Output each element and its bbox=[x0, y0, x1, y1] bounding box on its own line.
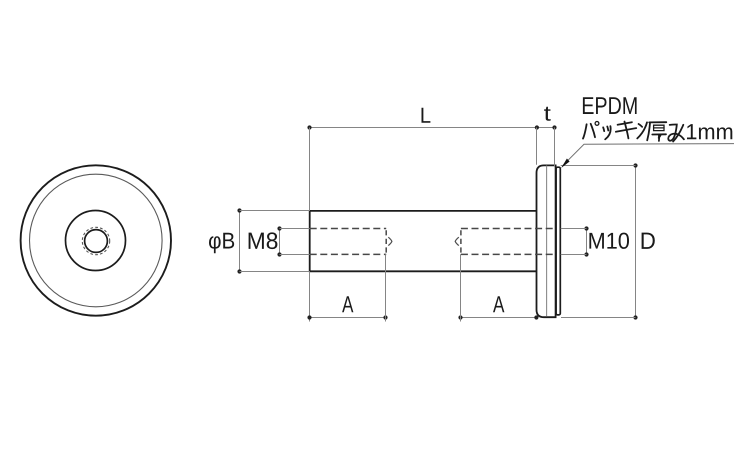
D bottom extension line bbox=[561, 317, 636, 319]
extension line at flange left (for L/t) bbox=[536, 128, 538, 165]
extension line at packing right (for t) bbox=[554, 128, 556, 167]
leader line for EPDM packing note bbox=[562, 144, 734, 167]
label M8 bbox=[249, 232, 278, 249]
label D bbox=[642, 233, 655, 249]
kanji ATSU (thickness) bbox=[649, 121, 666, 123]
label phiB bbox=[209, 233, 234, 253]
dimension A right: line with dots bbox=[461, 317, 537, 319]
label packing-thickness (Japanese) drawn as vector strokes bbox=[583, 122, 684, 142]
dimension M10: vertical line with dots bbox=[586, 229, 588, 255]
front view: outer circle (flange diameter D) bbox=[21, 165, 171, 315]
side view: EPDM packing strip bbox=[556, 167, 560, 315]
M10 tapped hole dashed outline (right end) bbox=[461, 229, 555, 255]
M10 extension lines bbox=[561, 228, 587, 230]
extension line at M8 hole end bbox=[385, 254, 387, 321]
M10 hole drill point chevron bbox=[455, 237, 459, 245]
label A right bbox=[493, 296, 504, 312]
label t bbox=[544, 107, 551, 121]
dimension A left: line with dots bbox=[310, 317, 386, 319]
side view: shaft body bbox=[310, 211, 537, 271]
extension line at M10 hole end bbox=[460, 254, 462, 321]
label M10 bbox=[589, 233, 629, 249]
front view: shaft circle (phi B) bbox=[66, 211, 126, 271]
front view: head edge ring circle bbox=[30, 174, 163, 307]
side view: head inner edge line bbox=[546, 166, 548, 317]
label EPDM bbox=[583, 97, 637, 114]
phiB extension lines bbox=[240, 210, 310, 212]
label A left bbox=[342, 296, 353, 312]
extension line at shaft left (for L and A) bbox=[309, 128, 311, 211]
front view: thread major dashed circle bbox=[82, 227, 109, 254]
katakana PA bbox=[583, 124, 587, 138]
M8 tapped hole dashed outline (left end) bbox=[310, 229, 387, 255]
front view: tapped hole minor circle bbox=[85, 230, 108, 253]
dimension D: vertical line with dots bbox=[635, 166, 637, 318]
M8 extension lines bbox=[280, 228, 310, 230]
dimension phiB: vertical line with dots bbox=[239, 211, 241, 272]
side view: flange head outline bbox=[537, 165, 556, 317]
dimension M8: vertical line with dots bbox=[279, 229, 281, 255]
label 1mm (after Japanese text) bbox=[687, 124, 732, 139]
katakana KI bbox=[618, 122, 632, 125]
hiragana MI bbox=[668, 124, 684, 140]
dimension L: line with end dots bbox=[310, 127, 555, 129]
label L bbox=[422, 108, 431, 123]
katakana N bbox=[639, 124, 643, 127]
M8 hole drill point chevron bbox=[388, 237, 392, 245]
leader arrowhead bbox=[561, 159, 569, 169]
D top extension line bbox=[561, 165, 636, 167]
katakana small TSU bbox=[603, 127, 604, 131]
